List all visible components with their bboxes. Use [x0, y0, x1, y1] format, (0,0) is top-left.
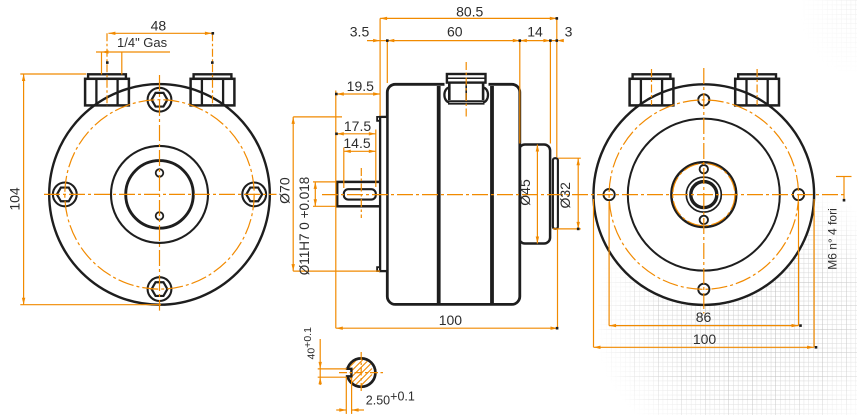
svg-text:60: 60	[447, 24, 463, 40]
svg-text:14: 14	[527, 24, 543, 40]
svg-text:19.5: 19.5	[347, 78, 374, 94]
svg-text:1/4" Gas: 1/4" Gas	[117, 35, 168, 50]
svg-text:Ø11H7 0 +0.018: Ø11H7 0 +0.018	[297, 177, 312, 275]
svg-text:80.5: 80.5	[456, 4, 483, 20]
svg-text:Ø32: Ø32	[557, 182, 573, 209]
svg-text:Ø70: Ø70	[277, 177, 293, 204]
svg-text:3: 3	[565, 24, 573, 40]
svg-text:Ø45: Ø45	[517, 179, 533, 206]
svg-text:M6 n° 4 fori: M6 n° 4 fori	[826, 208, 840, 270]
svg-text:3.5: 3.5	[350, 24, 370, 40]
svg-text:17.5: 17.5	[344, 118, 371, 134]
svg-text:100: 100	[439, 312, 463, 328]
svg-text:100: 100	[693, 331, 717, 347]
svg-text:48: 48	[151, 18, 167, 34]
svg-text:86: 86	[696, 309, 712, 325]
svg-text:104: 104	[7, 187, 23, 211]
svg-text:14.5: 14.5	[343, 135, 370, 151]
